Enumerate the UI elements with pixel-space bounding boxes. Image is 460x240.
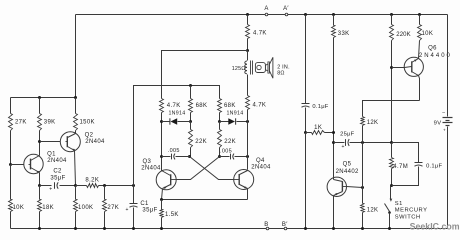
svg-text:C2: C2 xyxy=(53,169,62,175)
svg-text:1N914: 1N914 xyxy=(226,111,243,117)
svg-text:B: B xyxy=(264,222,268,228)
capacitor C1 35uF xyxy=(133,186,135,204)
svg-text:.005: .005 xyxy=(220,149,232,155)
node Q5 collector / 1K junction xyxy=(332,131,335,134)
svg-text:22K: 22K xyxy=(195,139,207,145)
wire battery column xyxy=(447,15,449,117)
svg-text:0.1μF: 0.1μF xyxy=(312,104,328,110)
wire 10K to bottom rail xyxy=(10,212,12,229)
node diode D1 anode xyxy=(160,120,163,123)
svg-text:SeekIC.com: SeekIC.com xyxy=(410,222,460,232)
svg-text:+: + xyxy=(341,144,344,150)
svg-text:+: + xyxy=(443,128,446,133)
node diode D2 anode xyxy=(246,120,249,123)
svg-text:Q2: Q2 xyxy=(85,133,94,139)
transistor Q2 2N404 xyxy=(40,131,106,186)
svg-text:10K: 10K xyxy=(422,31,434,37)
wire cross-coupling Q3 base xyxy=(177,157,220,180)
resistor 4.7M (timing) xyxy=(391,143,393,158)
svg-text:68K: 68K xyxy=(196,103,208,109)
node A' xyxy=(285,13,288,16)
wire C2 to Q2 emitter node xyxy=(60,185,76,187)
node A xyxy=(265,13,268,16)
wire left bias bus xyxy=(11,97,76,99)
resistor 33K (Q5 collector load) xyxy=(332,13,335,16)
svg-text:1N914: 1N914 xyxy=(168,111,185,117)
mercury switch S1 xyxy=(385,186,428,229)
node Q3 cross-coupling right xyxy=(218,155,221,158)
svg-text:4.7M: 4.7M xyxy=(393,164,408,170)
node emitter line / C1 junction xyxy=(132,184,135,187)
svg-text:68K: 68K xyxy=(224,103,236,109)
svg-text:25μF: 25μF xyxy=(340,132,355,138)
svg-text:125Ω: 125Ω xyxy=(232,66,246,72)
svg-text:0.1μF: 0.1μF xyxy=(426,164,442,170)
wire 68K-2 to D2 xyxy=(219,113,221,122)
svg-text:1.5K: 1.5K xyxy=(165,212,179,218)
svg-text:4.7K: 4.7K xyxy=(253,103,267,109)
svg-text:220K: 220K xyxy=(396,32,410,38)
svg-text:Q3: Q3 xyxy=(142,159,151,165)
wire 0.1uF column xyxy=(304,13,307,16)
svg-text:C1: C1 xyxy=(140,201,149,207)
node Q5 base column top xyxy=(361,141,364,144)
svg-text:2N4402: 2N4402 xyxy=(336,169,359,175)
svg-text:4.7K: 4.7K xyxy=(167,103,181,109)
svg-text:Q6: Q6 xyxy=(428,46,437,52)
capacitor 25uF xyxy=(334,142,345,144)
transformer T1 core xyxy=(250,61,252,75)
wire cross-coupling Q4 base xyxy=(190,157,234,180)
node Q4 collector top xyxy=(246,155,249,158)
battery 9V xyxy=(434,110,453,133)
svg-text:SWITCH: SWITCH xyxy=(395,214,421,220)
svg-text:12K: 12K xyxy=(367,208,379,214)
svg-text:A: A xyxy=(264,6,268,12)
resistor 68K (Q3 base bias) xyxy=(190,86,192,99)
diode D1 1N914 xyxy=(162,121,170,123)
resistor 150K (Q2 collector load) xyxy=(75,98,77,114)
svg-text:27K: 27K xyxy=(107,205,119,211)
wire 4.7K to Q4 collector node xyxy=(247,110,249,122)
svg-text:.005: .005 xyxy=(168,148,180,154)
resistor 22K (Q4 coupling) xyxy=(219,122,221,130)
capacitor C2 35uF xyxy=(54,182,56,188)
svg-text:A′: A′ xyxy=(283,6,289,12)
svg-text:2N404: 2N404 xyxy=(251,164,271,170)
svg-text:Q1: Q1 xyxy=(47,151,56,157)
svg-text:4.7K: 4.7K xyxy=(253,31,267,37)
svg-text:1K: 1K xyxy=(314,125,322,131)
svg-text:+: + xyxy=(49,187,52,193)
wire multivib bias bus xyxy=(134,86,220,186)
wire transformer to 4.7K xyxy=(247,75,249,96)
wire top supply rail A xyxy=(76,14,448,16)
resistor 100K (Q2 emitter to ground) xyxy=(75,186,77,200)
node 1K left xyxy=(304,131,307,134)
node 25uF left xyxy=(332,141,335,144)
svg-text:Q4: Q4 xyxy=(256,158,265,164)
capacitor .005 (Q4 side) xyxy=(220,156,230,158)
node Q6 base xyxy=(390,66,393,69)
resistor 1K (Q5 collector to coupling cap) xyxy=(306,132,312,134)
resistor 10K (Q1 base lower) xyxy=(9,200,13,212)
svg-text:10K: 10K xyxy=(13,205,25,211)
resistor 27K (lower, emitter line to ground) xyxy=(104,186,106,200)
svg-text:150K: 150K xyxy=(80,119,95,125)
svg-text:–: – xyxy=(442,110,445,116)
wire to 8.2K xyxy=(76,185,87,187)
svg-text:8.2K: 8.2K xyxy=(85,177,99,183)
node Q2 emitter xyxy=(74,184,77,187)
svg-text:2N404: 2N404 xyxy=(47,158,67,164)
wire 0.1uF column to ground xyxy=(305,133,307,229)
diode D2 1N914 xyxy=(220,121,229,123)
node Q4 cross-coupling left xyxy=(188,155,191,158)
svg-text:MERCURY: MERCURY xyxy=(395,208,428,214)
node Q5 emitter ground xyxy=(332,227,335,230)
svg-text:B′: B′ xyxy=(282,222,288,228)
wire Q5 collector column xyxy=(333,38,335,178)
resistor 4.7K (supply decoupling) xyxy=(246,13,249,16)
node Q1 emitter xyxy=(38,184,41,187)
transistor Q6 2N4400 xyxy=(392,41,452,101)
resistor 4.7K (Q4 collector load) xyxy=(246,96,250,110)
wire Q3 collector column xyxy=(161,113,163,171)
node timing cap C3 left xyxy=(160,155,163,158)
wire 27K to Q1 base node xyxy=(10,131,12,165)
node 68K top junction xyxy=(189,84,192,87)
node B xyxy=(266,227,269,230)
node D2 cathode / 22K-2 top xyxy=(218,120,221,123)
wire 22K-2 to cap node xyxy=(219,148,221,157)
wire decoupled supply line xyxy=(247,39,249,51)
transistor Q3 2N404 xyxy=(141,159,176,200)
node 27K lower junction xyxy=(103,184,106,187)
wire 22K to cap node xyxy=(190,148,192,157)
svg-text:2N404: 2N404 xyxy=(141,165,161,171)
svg-text:35μF: 35μF xyxy=(50,176,65,182)
node B' xyxy=(284,227,287,230)
resistor 1.5K (common emitter) xyxy=(161,200,163,210)
resistor 22K (Q3 coupling) xyxy=(190,122,192,130)
transistor Q4 2N404 xyxy=(234,157,272,200)
wire 39K to Q2 base node xyxy=(39,131,41,142)
transistor Q5 2N4402 xyxy=(327,162,362,229)
resistor 18K (Q1 emitter to ground) xyxy=(39,186,41,200)
node Q5 base xyxy=(361,186,364,189)
svg-text:12K: 12K xyxy=(367,120,379,126)
speaker SPKR 2in 8ohm xyxy=(255,57,289,78)
svg-text:8Ω: 8Ω xyxy=(277,71,285,77)
resistor 220K (Q6 base bias) xyxy=(390,13,393,16)
svg-text:Q5: Q5 xyxy=(343,162,352,168)
wire transformer primary top xyxy=(247,51,249,61)
svg-text:S1: S1 xyxy=(395,201,403,207)
transistor Q1 2N404 xyxy=(11,142,68,186)
wire Q5 base column xyxy=(362,143,364,204)
wire 8.2K right xyxy=(99,185,134,187)
resistor 68K (Q4 base bias) xyxy=(218,99,222,113)
svg-text:18K: 18K xyxy=(42,205,54,211)
wire emitter line left xyxy=(40,185,52,187)
wire Q1 base node down xyxy=(10,165,12,200)
capacitor 0.1uF (timing, parallel 4.7M) xyxy=(392,143,419,163)
svg-text:39K: 39K xyxy=(44,119,56,125)
transformer T1 primary winding xyxy=(245,61,247,64)
wire common emitter line xyxy=(162,199,248,201)
node Q1 collector / Q2 base xyxy=(38,140,41,143)
node Q3 emitter xyxy=(160,198,163,201)
wire Q6 base column xyxy=(391,41,393,143)
node D1 cathode / 22K top xyxy=(189,120,192,123)
wire bottom ground rail B xyxy=(11,228,448,230)
svg-text:35μF: 35μF xyxy=(142,208,157,214)
svg-text:27K: 27K xyxy=(15,119,27,125)
resistor 39K (Q2 base upper) xyxy=(39,98,41,114)
svg-text:22K: 22K xyxy=(224,139,236,145)
svg-text:2N404: 2N404 xyxy=(85,139,105,145)
svg-text:100K: 100K xyxy=(78,205,93,211)
wire left supply drop xyxy=(75,15,77,98)
node 4.7M top xyxy=(390,141,393,144)
svg-text:+: + xyxy=(126,207,129,213)
svg-text:9V: 9V xyxy=(434,120,442,126)
resistor 10K (Q6 emitter) xyxy=(418,13,421,16)
node 4.7M bottom / switch top xyxy=(390,184,393,187)
node Q1 base junction xyxy=(9,163,12,166)
resistor 27K (Q1 base upper) xyxy=(9,114,13,131)
resistor 12K (Q5 base to ground) xyxy=(361,204,365,213)
svg-text:2N4400: 2N4400 xyxy=(419,53,452,59)
wire 25uF line to 4.7M top xyxy=(363,142,392,144)
capacitor .005 (Q3 side) xyxy=(162,156,171,158)
capacitor 0.1uF (coupling) xyxy=(302,103,310,105)
resistor 4.7K (Q3 collector load) xyxy=(160,99,164,113)
resistor 12K (Q6 collector to Q5 base) xyxy=(363,101,420,117)
wire 68K to D1 xyxy=(190,113,192,122)
svg-text:33K: 33K xyxy=(338,31,350,37)
resistor 8.2K xyxy=(87,184,99,188)
node switch ground xyxy=(388,227,391,230)
